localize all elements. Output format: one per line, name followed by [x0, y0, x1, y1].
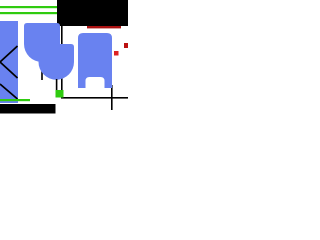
green line top 2 — [0, 12, 57, 14]
rect bottom edge line — [61, 97, 128, 99]
red line under block — [87, 26, 121, 28]
vertical line bottom-right — [111, 85, 113, 110]
green line bottom — [0, 99, 30, 101]
black top-right block — [57, 0, 128, 26]
dome with legs — [78, 33, 112, 88]
bottom black band — [0, 104, 56, 114]
lower diagonal — [0, 84, 18, 99]
glass 1 bowl — [24, 23, 60, 62]
glass 2 bowl — [39, 44, 75, 80]
red edge notch — [124, 43, 128, 48]
chevron lower arm — [0, 62, 18, 78]
left blue stripe — [0, 21, 18, 103]
background — [0, 0, 128, 128]
chevron upper arm — [0, 46, 18, 62]
rect left edge line — [61, 26, 63, 98]
green line top 1 — [0, 6, 57, 8]
green square — [56, 90, 64, 98]
glass 2 stem — [56, 79, 58, 91]
red dot — [114, 51, 119, 56]
glass 1 stem — [41, 61, 43, 80]
